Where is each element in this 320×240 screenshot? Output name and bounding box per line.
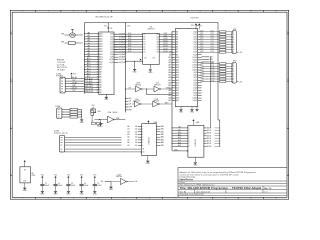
svg-text:DQ8: DQ8	[211, 51, 214, 53]
resistor R8	[96, 122, 100, 124]
svg-text:GND: GND	[190, 112, 195, 114]
svg-text:DQ12: DQ12	[200, 73, 204, 75]
regulator U6 VCC	[24, 160, 26, 162]
capacitor C4	[80, 175, 89, 192]
wire TSOP left bus	[171, 32, 173, 151]
svg-text:GND: GND	[66, 193, 71, 195]
svg-text:C1: C1	[45, 183, 47, 185]
svg-text:PWE: PWE	[116, 118, 119, 120]
svg-text:D5: D5	[143, 46, 145, 48]
svg-text:74HC04: 74HC04	[112, 112, 117, 114]
svg-text:DQ0: DQ0	[211, 31, 214, 33]
svg-text:D4: D4	[143, 44, 145, 46]
svg-text:21: 21	[97, 84, 99, 86]
svg-text:WE: WE	[129, 98, 132, 100]
svg-text:A18: A18	[99, 45, 102, 48]
title block size date row	[180, 190, 268, 194]
svg-text:GND: GND	[54, 193, 59, 195]
regulator U6 ground	[24, 183, 26, 188]
svg-text:TSOP 48: TSOP 48	[190, 17, 199, 19]
svg-text:A26: A26	[176, 97, 179, 100]
svg-text:GND: GND	[179, 112, 184, 114]
svg-text:A6: A6	[99, 76, 101, 79]
svg-text:GND: GND	[23, 190, 28, 192]
resistor R6	[91, 108, 96, 122]
svg-text:A4: A4	[176, 41, 178, 44]
inverter U5C output wire	[161, 88, 172, 90]
svg-text:DQ5: DQ5	[200, 43, 203, 45]
svg-text:DQ11: DQ11	[193, 100, 197, 102]
svg-text:GND: GND	[40, 193, 45, 195]
title block rule 3	[178, 185, 287, 187]
inverter U5A input wire	[95, 119, 108, 121]
wire VCC top rail	[85, 23, 219, 32]
svg-text:2: 2	[48, 11, 49, 13]
connector J2 pin wires and resistors	[58, 108, 82, 119]
IC U4B body	[188, 125, 204, 157]
svg-text:A18: A18	[176, 76, 179, 79]
svg-text:Rev: 1.0: Rev: 1.0	[264, 188, 271, 190]
svg-text:12: 12	[97, 61, 99, 63]
capacitor C2	[53, 175, 62, 192]
svg-text:A20: A20	[176, 81, 179, 84]
svg-text:CON4: CON4	[55, 106, 60, 108]
title block rule 2	[178, 182, 287, 184]
svg-text:A3: A3	[99, 83, 101, 86]
resistor network RN1 +5V wire	[237, 52, 243, 54]
svg-text:DQ2: DQ2	[200, 36, 203, 38]
svg-text:DQ9/A: DQ9/A	[119, 56, 126, 59]
connector J2 body	[57, 108, 62, 118]
svg-text:/WE-A9: /WE-A9	[71, 76, 77, 79]
svg-text:VPP: VPP	[129, 107, 132, 109]
svg-text:100nF: 100nF	[97, 185, 101, 187]
svg-text:A5: A5	[176, 43, 178, 46]
connector J3 pin wires	[61, 137, 142, 152]
svg-text:DQ3: DQ3	[200, 38, 203, 40]
svg-text:A10: A10	[99, 66, 102, 69]
svg-text:A11: A11	[99, 63, 102, 66]
IC U1 left pin rows	[84, 32, 102, 94]
svg-text:GND-A21: GND-A21	[84, 85, 94, 88]
capacitor C4 ground	[80, 190, 83, 192]
svg-text:A23: A23	[176, 89, 179, 92]
svg-text:A10: A10	[176, 56, 179, 59]
svg-text:2: 2	[48, 198, 49, 200]
capacitor C1 ground	[41, 190, 44, 192]
inverter U5C triangle	[154, 86, 160, 92]
svg-text:GND: GND	[148, 72, 153, 74]
svg-text:74HC541: 74HC541	[148, 137, 150, 144]
sheet border row ticks	[10, 31, 289, 176]
svg-text:A22: A22	[99, 35, 102, 38]
resistor network RN2 +5V wire	[237, 81, 243, 83]
svg-text:DQ4: DQ4	[200, 41, 203, 43]
svg-text:/CE-A22: /CE-A22	[85, 77, 93, 80]
TSOP mid label rows	[202, 56, 216, 63]
svg-text:A6: A6	[176, 46, 178, 49]
inverter U5D triangle	[134, 101, 140, 107]
svg-text:OE: OE	[129, 87, 131, 89]
svg-text:GND: GND	[133, 71, 138, 73]
svg-text:10: 10	[250, 198, 252, 200]
svg-text:JP 16 BIT: JP 16 BIT	[57, 69, 66, 71]
svg-text:DQ12: DQ12	[211, 73, 215, 75]
svg-text:A1: A1	[99, 88, 101, 91]
IC U4A right pin rows	[156, 125, 163, 147]
svg-text:DQ7: DQ7	[110, 52, 113, 54]
svg-text:D6: D6	[143, 49, 145, 51]
inverter U5A output wire	[115, 119, 125, 121]
bus stub labels row2	[125, 98, 132, 112]
svg-text:CE: CE	[129, 101, 131, 103]
inverter U5E output wire	[160, 103, 172, 105]
svg-text:DQ14: DQ14	[200, 78, 204, 80]
connector J1 VCC stub	[71, 75, 73, 79]
svg-text:A25: A25	[176, 94, 179, 97]
svg-text:DQ6: DQ6	[211, 46, 214, 48]
svg-text:A9: A9	[99, 68, 101, 71]
svg-text:+5V-A9: +5V-A9	[71, 81, 77, 84]
svg-text:11: 11	[275, 198, 277, 200]
svg-text:DQ7: DQ7	[128, 51, 131, 53]
svg-text:G1: G1	[142, 149, 144, 151]
sheet border column ticks	[22, 10, 277, 200]
IC U1 right pin rows	[109, 33, 126, 64]
IC U4A ground	[147, 156, 149, 161]
svg-text:OE: OE	[153, 58, 155, 60]
connector J1 body	[60, 77, 65, 93]
svg-text:DQ4: DQ4	[110, 44, 113, 46]
ground below U2 enable	[133, 68, 136, 70]
svg-text:22: 22	[97, 87, 99, 89]
svg-text:DQ6: DQ6	[200, 46, 203, 48]
regulator U6 pins	[23, 162, 26, 183]
title block border	[178, 167, 287, 197]
title block note text	[180, 171, 257, 181]
svg-text:GND: GND	[80, 193, 85, 195]
inverter U5F input parts	[101, 181, 111, 186]
svg-text:A9: A9	[176, 53, 178, 56]
svg-text:100nF: 100nF	[71, 185, 75, 187]
svg-text:100nF: 100nF	[84, 185, 88, 187]
svg-text:D1: D1	[143, 36, 145, 38]
svg-text:C6: C6	[110, 28, 112, 30]
IC U2 left pin rows	[114, 33, 146, 54]
wire left bus	[84, 23, 86, 94]
svg-text:GND: GND	[193, 165, 198, 167]
title block rule 1	[178, 180, 287, 182]
IC U4B enable pin	[172, 149, 188, 151]
inverter U5E triangle	[153, 101, 159, 107]
svg-text:DQ0: DQ0	[110, 34, 113, 36]
svg-text:14: 14	[97, 66, 99, 68]
wire right bus	[218, 32, 220, 147]
svg-text:CON6: CON6	[54, 130, 59, 132]
note text block	[57, 59, 67, 71]
IC U4A VCC	[147, 120, 149, 122]
svg-text:A19: A19	[99, 43, 102, 46]
svg-text:DQ11: DQ11	[109, 62, 113, 64]
IC U2 ground	[149, 64, 151, 69]
svg-text:G2: G2	[142, 151, 144, 153]
inverter U5B input wire	[125, 88, 135, 90]
IC U4A enable pin	[141, 149, 145, 154]
svg-text:DQ8: DQ8	[200, 51, 203, 53]
svg-text:19: 19	[97, 79, 99, 81]
IC U3 grounds	[180, 107, 182, 110]
svg-text:A7: A7	[99, 73, 101, 76]
title block rule 5	[178, 192, 287, 194]
sheet border inner frame	[12, 12, 287, 197]
capacitor C3 ground	[67, 190, 70, 192]
svg-text:DQ1: DQ1	[110, 36, 113, 38]
connector J2 ground	[80, 119, 83, 121]
svg-text:A14: A14	[176, 66, 179, 69]
resistor network RN2 rows	[200, 62, 233, 82]
title block rev divider	[262, 186, 264, 193]
svg-text:A22: A22	[176, 86, 179, 89]
title block rule 6	[178, 194, 287, 196]
wire TSOP right signal down	[210, 57, 212, 128]
svg-text:100nF: 100nF	[45, 185, 49, 187]
svg-text:100nF: 100nF	[58, 185, 62, 187]
svg-text:11: 11	[275, 11, 277, 13]
svg-text:Digital Devices: Digital Devices	[180, 178, 193, 181]
svg-text:8: 8	[200, 198, 201, 200]
svg-text:A7: A7	[176, 48, 178, 51]
svg-text:DQ11: DQ11	[200, 70, 204, 72]
inverter U5F output wire	[127, 181, 134, 183]
svg-text:DQ5: DQ5	[211, 43, 214, 45]
svg-text:1: 1	[22, 198, 23, 200]
svg-text:A15: A15	[176, 69, 179, 72]
svg-text:4: 4	[98, 11, 99, 13]
IC U4B ground	[194, 157, 196, 162]
svg-text:OUT: OUT	[23, 181, 26, 183]
svg-text:9: 9	[225, 11, 226, 13]
svg-text:DQ2: DQ2	[211, 36, 214, 38]
svg-text:DQ7: DQ7	[200, 48, 203, 50]
svg-text:U2: U2	[150, 27, 152, 29]
capacitor C5 ground	[93, 190, 96, 192]
svg-text:A0: A0	[176, 30, 178, 33]
svg-text:A23: A23	[99, 32, 102, 35]
wire J2 network to U5A	[95, 122, 96, 124]
svg-text:A14: A14	[99, 55, 102, 58]
connector J1 pin wires	[61, 76, 85, 92]
svg-text:GND: GND	[93, 193, 98, 195]
svg-text:18: 18	[97, 77, 99, 79]
svg-text:DQ13: DQ13	[200, 75, 204, 77]
svg-text:9: 9	[225, 198, 226, 200]
svg-text:C4: C4	[84, 183, 86, 185]
IC U1 ground	[105, 95, 107, 98]
svg-text:74HC541: 74HC541	[195, 139, 197, 146]
LED D1	[91, 105, 102, 116]
inverter U5D output wire	[141, 103, 153, 105]
svg-text:A8: A8	[99, 71, 101, 74]
svg-text:A17: A17	[176, 74, 179, 77]
svg-text:WILLEM (SCD) ZIF: WILLEM (SCD) ZIF	[95, 16, 113, 18]
svg-text:LE: LE	[145, 58, 147, 60]
svg-text:A13: A13	[99, 58, 102, 61]
svg-text:GND: GND	[146, 163, 151, 165]
inverter U5A ground stub	[100, 120, 102, 124]
svg-text:A0: A0	[99, 91, 101, 94]
IC U4A left pin rows	[128, 125, 144, 147]
resistor R7	[91, 122, 95, 124]
resistor R1	[61, 42, 83, 45]
svg-text:1: 1	[22, 11, 23, 13]
svg-text:4: 4	[98, 198, 99, 200]
capacitor C2 ground	[54, 190, 57, 192]
svg-text:DQ10: DQ10	[211, 68, 215, 70]
svg-text:A13: A13	[176, 63, 179, 66]
svg-text:Q5: Q5	[156, 46, 158, 48]
svg-text:DQ6: DQ6	[110, 49, 113, 51]
IC U2 enable wire	[125, 58, 155, 69]
svg-text:DQ3: DQ3	[110, 41, 113, 43]
svg-text:A2: A2	[99, 86, 101, 89]
svg-text:10: 10	[97, 56, 99, 58]
svg-text:A17: A17	[79, 42, 82, 45]
svg-text:A11: A11	[176, 58, 179, 61]
svg-text:20: 20	[97, 82, 99, 84]
svg-text:GND: GND	[104, 99, 109, 101]
inverter U5F ground	[109, 186, 112, 188]
svg-text:C2: C2	[58, 183, 60, 185]
svg-text:7: 7	[174, 11, 175, 13]
svg-text:WE#: WE#	[165, 102, 169, 104]
svg-text:16: 16	[97, 72, 99, 74]
svg-text:DQ1: DQ1	[211, 33, 214, 35]
svg-text:/OE-A20: /OE-A20	[85, 80, 94, 83]
inverter U5D input wire	[132, 103, 134, 105]
svg-text:13: 13	[97, 64, 99, 66]
sheet border outer frame	[10, 10, 288, 199]
svg-text:5: 5	[124, 11, 125, 13]
svg-text:6: 6	[149, 198, 150, 200]
resistor network RN1 rows	[200, 31, 233, 54]
svg-text:KiCad E.A. 2.3.4 (2002-07-29: KiCad E.A. 2.3.4 (2002-07-29)	[180, 193, 205, 196]
svg-text:A20: A20	[99, 40, 102, 43]
capacitor C3	[66, 175, 75, 192]
svg-text:Q2: Q2	[156, 39, 158, 41]
svg-text:17: 17	[97, 74, 99, 76]
svg-text:DQ8: DQ8	[110, 54, 113, 56]
svg-text:/RST: /RST	[210, 59, 214, 61]
svg-text:R9: R9	[101, 181, 103, 183]
svg-text:C3: C3	[71, 183, 73, 185]
svg-text:11: 11	[97, 59, 99, 61]
svg-text:Q3: Q3	[156, 41, 158, 43]
svg-text:A21: A21	[176, 84, 179, 87]
inverter U5F input wire	[111, 181, 120, 183]
svg-text:10: 10	[250, 11, 252, 13]
inverter U5B triangle	[136, 86, 142, 92]
svg-text:A12: A12	[176, 61, 179, 64]
svg-text:7: 7	[174, 198, 175, 200]
svg-text:7805: 7805	[31, 175, 35, 177]
IC U1 ZIF socket body	[99, 32, 114, 95]
svg-text:A21: A21	[99, 37, 102, 40]
svg-text:PW: PW	[61, 33, 64, 35]
svg-text:6: 6	[149, 11, 150, 13]
capacitor C1	[40, 175, 49, 192]
regulator U6 body	[20, 167, 31, 183]
svg-text:GND: GND	[99, 126, 104, 128]
svg-text:A3: A3	[176, 38, 178, 41]
svg-text:74HC04: 74HC04	[116, 176, 123, 178]
svg-text:Q7: Q7	[156, 52, 158, 54]
crystal Y1	[61, 29, 83, 37]
svg-text:74HC04: 74HC04	[154, 84, 161, 86]
IC U1 VCC stub	[104, 23, 112, 33]
IC U3 VCC cluster	[191, 23, 202, 29]
svg-text:A15: A15	[99, 53, 102, 56]
svg-text:DQ9: DQ9	[110, 57, 113, 59]
svg-text:DQ7: DQ7	[211, 48, 214, 50]
svg-text:C7: C7	[200, 26, 202, 28]
svg-text:DQ15: DQ15	[211, 80, 215, 82]
IC U2 right pin rows	[156, 33, 172, 54]
svg-text:R6: R6	[94, 112, 96, 114]
svg-text:DQ3: DQ3	[211, 38, 214, 40]
svg-text:DQ1: DQ1	[200, 33, 203, 35]
svg-text:OE: OE	[135, 181, 137, 183]
svg-text:Q6: Q6	[156, 49, 158, 51]
svg-text:R7: R7	[92, 121, 94, 123]
svg-text:5: 5	[124, 198, 125, 200]
svg-text:+5V-A19: +5V-A19	[85, 83, 94, 86]
IC U3 ground 2	[191, 107, 193, 110]
svg-text:RST: RST	[129, 109, 132, 111]
IC U2 VCC arrow	[139, 59, 141, 61]
svg-text:OE: OE	[129, 104, 131, 106]
svg-text:A18: A18	[79, 34, 82, 37]
svg-text:3: 3	[73, 11, 74, 13]
svg-text:DQ4: DQ4	[211, 41, 214, 43]
svg-text:DQ8: DQ8	[211, 62, 214, 64]
IC U3 ground 3	[196, 107, 198, 110]
svg-text:DQ10: DQ10	[109, 59, 113, 61]
svg-text:24: 24	[97, 92, 99, 94]
svg-text:GND: GND	[80, 122, 85, 124]
svg-text:DQ8/A: DQ8/A	[119, 53, 126, 56]
IC U2 body	[143, 33, 160, 64]
svg-text:A17: A17	[99, 48, 102, 51]
svg-text:A4: A4	[99, 81, 101, 84]
title block rule 4	[178, 189, 287, 191]
svg-text:DQ2: DQ2	[110, 39, 113, 41]
svg-text:Q1: Q1	[156, 36, 158, 38]
wire U5B branch down	[147, 89, 172, 95]
svg-text:23: 23	[97, 89, 99, 91]
svg-text:GND: GND	[109, 189, 114, 191]
svg-text:15: 15	[97, 69, 99, 71]
IC U3 TSOP48 body	[175, 29, 197, 107]
svg-text:DQ15: DQ15	[163, 51, 167, 53]
svg-text:3: 3	[73, 198, 74, 200]
svg-text:DQ9: DQ9	[211, 65, 214, 67]
svg-text:DQ8: DQ8	[200, 62, 203, 64]
IC U4B right pin rows	[204, 126, 220, 147]
connector J3 body	[60, 135, 65, 152]
svg-text:DQ15: DQ15	[200, 80, 204, 82]
svg-text:D2: D2	[143, 39, 145, 41]
svg-text:A1: A1	[176, 33, 178, 36]
